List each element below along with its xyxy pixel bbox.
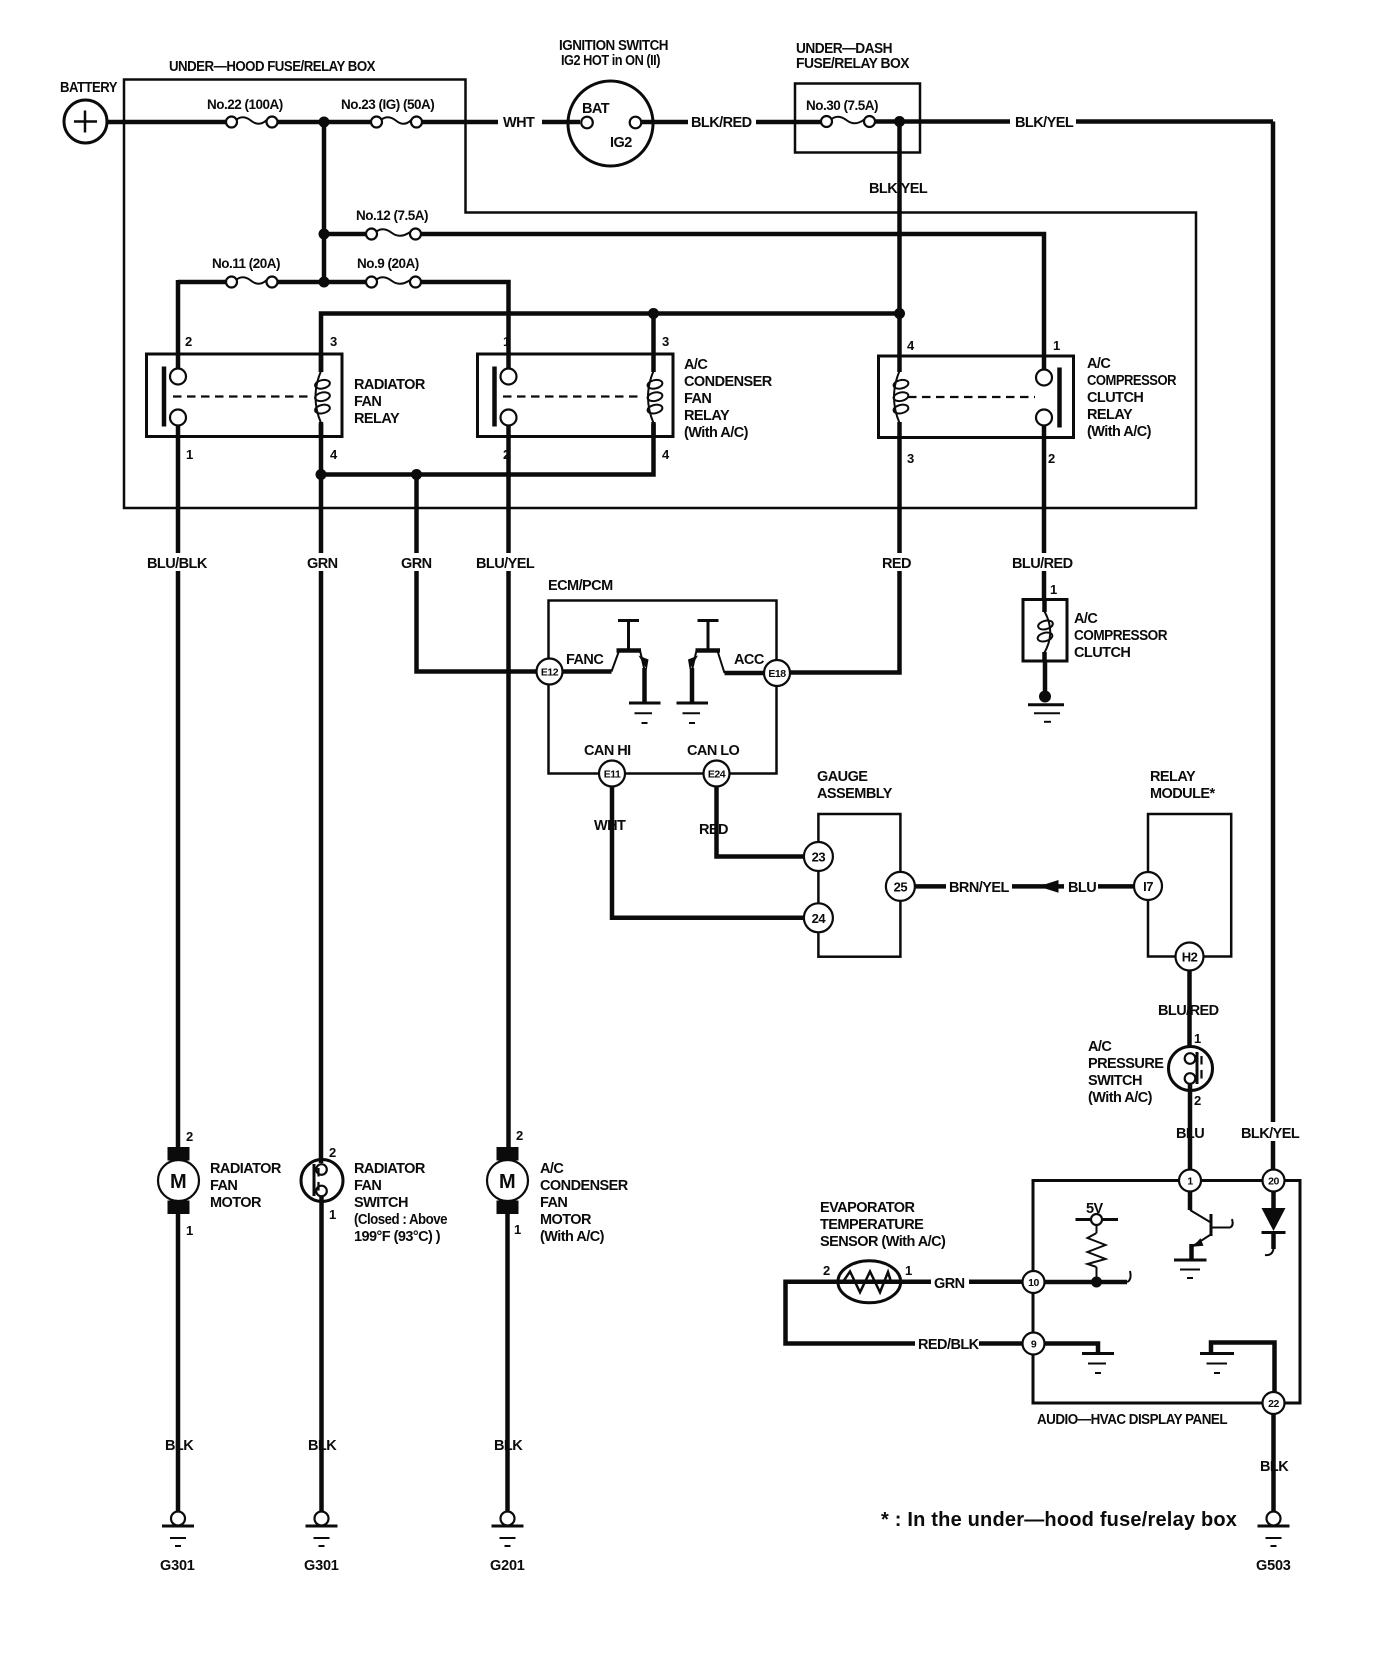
svg-text:1: 1 [1194,1031,1201,1046]
a/c condenser fan motor [487,1128,629,1245]
svg-text:FAN: FAN [210,1178,237,1194]
svg-text:UNDER—HOOD FUSE/RELAY BOX: UNDER—HOOD FUSE/RELAY BOX [169,59,376,75]
radiator fan switch [301,1145,447,1245]
svg-text:G201: G201 [490,1558,525,1574]
connector symbol (male-female join) [1039,880,1059,893]
terminal H2 [1176,943,1204,971]
transistor Q2 (ACC) [688,621,765,704]
terminal E18 ACC [734,652,790,686]
gauge terminal 23 [804,842,833,871]
svg-text:199°F (93°C) ): 199°F (93°C) ) [354,1229,441,1245]
fuse No.23 (IG) (50A) [341,97,434,128]
svg-text:BLU/YEL: BLU/YEL [476,556,535,572]
panel terminal 1 [1179,1170,1201,1192]
wire BLK terminal 22 to ground G503 [1260,1414,1289,1512]
svg-text:WHT: WHT [594,818,626,834]
svg-text:2: 2 [329,1145,336,1160]
audio-hvac display panel box [1033,1181,1300,1429]
svg-text:23: 23 [812,850,826,865]
wire GRN radiator relay pin4 to radiator fan switch [305,475,341,1164]
svg-text:ASSEMBLY: ASSEMBLY [817,786,893,802]
svg-text:G301: G301 [304,1558,339,1574]
svg-text:BLK: BLK [308,1438,337,1454]
svg-text:EVAPORATOR: EVAPORATOR [820,1200,915,1216]
svg-text:FAN: FAN [354,1178,381,1194]
ground G301 (radiator fan motor) [160,1512,195,1575]
footnote [881,1509,1237,1531]
wire GRN coil-low link to ECM FANC [399,475,536,672]
wire BLU pressure switch to panel terminal 1 [1176,1084,1204,1170]
relay module box [1148,769,1231,957]
wire BLK condenser fan motor to ground [494,1214,523,1512]
svg-text:BLK/YEL: BLK/YEL [1241,1126,1300,1142]
svg-text:1: 1 [503,334,510,349]
svg-text:2: 2 [185,334,192,349]
svg-text:GRN: GRN [307,556,338,572]
svg-text:RADIATOR: RADIATOR [354,1161,426,1177]
a/c condenser fan relay [478,334,773,462]
svg-text:CLUTCH: CLUTCH [1074,645,1130,661]
svg-text:ECM/PCM: ECM/PCM [548,578,613,594]
svg-text:E12: E12 [541,667,559,679]
under-dash fuse/relay box [795,41,920,153]
svg-text:24: 24 [812,911,827,926]
svg-text:(With A/C): (With A/C) [540,1229,605,1245]
wire IG2 to under-dash fuse with BLK/RED label [642,112,821,131]
svg-text:BLU: BLU [1176,1126,1204,1142]
terminal E11 CAN HI [584,743,631,787]
svg-text:MOTOR: MOTOR [540,1212,592,1228]
svg-text:GRN: GRN [934,1276,965,1292]
svg-text:PRESSURE: PRESSURE [1088,1056,1164,1072]
5V reference [1076,1201,1119,1225]
terminal E24 CAN LO [687,743,740,787]
svg-text:1: 1 [186,1223,193,1238]
svg-text:E11: E11 [604,769,621,781]
gauge assembly box [817,769,900,957]
wire fuse12 to compressor clutch relay pin1 [421,234,1044,370]
svg-text:No.30 (7.5A): No.30 (7.5A) [806,98,878,113]
svg-text:RELAY: RELAY [684,408,730,424]
svg-text:RED/BLK: RED/BLK [918,1337,980,1353]
svg-text:I7: I7 [1143,879,1153,894]
svg-text:(Closed : Above: (Closed : Above [354,1212,447,1228]
wire BLK/YEL down from junction to relay feed line [869,122,928,373]
svg-text:COMPRESSOR: COMPRESSOR [1074,628,1168,644]
svg-text:WHT: WHT [503,115,535,131]
fuse No.30 (7.5A) [806,98,878,127]
internal ground to terminal 22 [1211,1343,1275,1393]
ground below compressor clutch [1028,661,1064,722]
svg-text:No.12 (7.5A): No.12 (7.5A) [356,208,428,223]
svg-text:CONDENSER: CONDENSER [684,374,773,390]
ground G503 [1256,1512,1291,1575]
terminal E12 FANC [537,652,605,685]
wire RED E24 to gauge 23 [699,787,803,857]
svg-text:3: 3 [330,334,337,349]
svg-text:MOTOR: MOTOR [210,1195,262,1211]
svg-text:RADIATOR: RADIATOR [354,377,426,393]
svg-text:25: 25 [894,879,908,894]
svg-text:4: 4 [662,447,670,462]
svg-text:IGNITION SWITCH: IGNITION SWITCH [559,38,668,54]
svg-text:RELAY: RELAY [354,411,400,427]
svg-text:COMPRESSOR: COMPRESSOR [1087,373,1177,389]
panel terminal 10 [1023,1271,1045,1293]
svg-text:A/C: A/C [1074,611,1098,627]
svg-text:FUSE/RELAY BOX: FUSE/RELAY BOX [796,56,910,72]
svg-text:BLK/YEL: BLK/YEL [1015,115,1074,131]
wire RED compressor relay pin3 to ECM ACC [790,438,916,673]
wire terminal 10 to internal node [1045,1271,1131,1288]
wire battery to fuse No.22 [106,120,227,125]
svg-text:BLK/RED: BLK/RED [691,115,752,131]
svg-text:SWITCH: SWITCH [354,1195,408,1211]
svg-text:A/C: A/C [1088,1039,1112,1055]
radiator fan relay [147,334,426,462]
wire BLK radiator fan switch to ground [308,1196,337,1512]
svg-text:CLUTCH: CLUTCH [1087,390,1143,406]
svg-text:BLK: BLK [1260,1459,1289,1475]
wire fuse9 to condenser relay pin1 [421,282,509,369]
battery [60,80,118,143]
svg-text:BAT: BAT [582,101,610,117]
wire fuse30 to right edge with BLK/YEL label and junction [875,111,1273,131]
wire fuse23 to ignition BAT with WHT label [422,112,580,131]
relay feed line y=313 [321,308,900,372]
ground under Q1 [629,703,661,723]
svg-text:* : In the under—hood fuse/rel: * : In the under—hood fuse/relay box [881,1509,1237,1531]
transistor Q3 (panel input) [1190,1192,1233,1260]
svg-text:FAN: FAN [540,1195,567,1211]
fuse No.12 (7.5A) [324,208,428,240]
diode D1 under terminal 20 [1262,1192,1286,1256]
svg-text:SENSOR (With A/C): SENSOR (With A/C) [820,1234,946,1250]
ground under Q3 [1174,1260,1207,1278]
svg-text:A/C: A/C [684,357,708,373]
fuse No.22 (100A) [207,97,283,128]
svg-text:MODULE*: MODULE* [1150,786,1216,802]
svg-text:No.11 (20A): No.11 (20A) [212,256,280,271]
svg-text:A/C: A/C [540,1161,564,1177]
svg-text:1: 1 [1050,582,1057,597]
svg-text:9: 9 [1031,1339,1037,1351]
ground under Q2 [677,703,709,723]
svg-text:1: 1 [514,1222,521,1237]
svg-text:RELAY: RELAY [1150,769,1196,785]
gauge terminal 24 [804,903,833,932]
svg-text:TEMPERATURE: TEMPERATURE [820,1217,924,1233]
svg-text:FAN: FAN [354,394,381,410]
svg-text:M: M [170,1171,187,1193]
svg-text:1: 1 [186,447,193,462]
svg-text:22: 22 [1268,1398,1279,1410]
svg-text:SWITCH: SWITCH [1088,1073,1142,1089]
wire fuse11 to trunk [278,280,325,285]
resistor R (pull-up) [1088,1225,1106,1282]
fuse No.11 (20A) [178,256,280,288]
svg-text:3: 3 [662,334,669,349]
svg-text:BLU/BLK: BLU/BLK [147,556,208,572]
svg-text:1: 1 [905,1263,912,1278]
svg-text:GAUGE: GAUGE [817,769,868,785]
svg-text:2: 2 [823,1263,830,1278]
coil-low link line y=474.5 [316,424,654,480]
svg-text:CONDENSER: CONDENSER [540,1178,629,1194]
svg-text:1: 1 [1053,338,1060,353]
wire fuse22 to fuse23 with trunk junction [278,117,372,128]
terminal I7 [1134,872,1162,900]
fuse No.9 (20A) [324,256,421,288]
svg-text:4: 4 [907,338,915,353]
svg-text:AUDIO—HVAC DISPLAY PANEL: AUDIO—HVAC DISPLAY PANEL [1037,1412,1228,1428]
panel terminal 22 [1263,1392,1285,1414]
gauge terminal 25 [886,872,915,901]
svg-text:E18: E18 [768,668,786,680]
ground G201 [490,1512,525,1575]
svg-text:1: 1 [329,1207,336,1222]
svg-text:(With A/C): (With A/C) [684,425,749,441]
wire BLU/RED compressor relay pin2 to compressor clutch [1010,426,1074,600]
svg-text:H2: H2 [1182,950,1198,965]
svg-text:IG2 HOT in ON (II): IG2 HOT in ON (II) [561,53,661,69]
svg-text:BLK: BLK [494,1438,523,1454]
svg-text:BATTERY: BATTERY [60,80,118,96]
wire terminal 9 to ground [1045,1344,1099,1353]
wire WHT E11 to gauge 24 [594,787,803,918]
svg-text:FANC: FANC [566,652,604,668]
svg-text:2: 2 [1194,1093,1201,1108]
svg-text:No.23 (IG) (50A): No.23 (IG) (50A) [341,97,434,112]
svg-text:M: M [499,1171,516,1193]
wire fuse11 down to radiator relay pin2 [176,280,181,369]
svg-text:10: 10 [1028,1277,1039,1289]
svg-text:(With A/C): (With A/C) [1088,1090,1153,1106]
svg-text:BLK: BLK [165,1438,194,1454]
ignition switch [559,38,668,166]
svg-text:BLK/YEL: BLK/YEL [869,181,928,197]
wire GRN sensor pin1 to terminal 10 [838,1272,1023,1292]
radiator fan motor [158,1129,282,1238]
svg-text:2: 2 [1048,451,1055,466]
svg-text:2: 2 [186,1129,193,1144]
under-hood fuse/relay box outline [124,59,1196,508]
svg-text:G301: G301 [160,1558,195,1574]
wire H2 to a/c pressure switch BLU/RED [1158,971,1219,1049]
ECM/PCM box [548,578,777,774]
ground symbol near terminal 22 [1200,1354,1234,1374]
svg-text:CAN LO: CAN LO [687,743,740,759]
svg-text:BLU: BLU [1068,880,1096,896]
svg-text:IG2: IG2 [610,135,632,151]
svg-text:BLU/RED: BLU/RED [1012,556,1073,572]
svg-text:UNDER—DASH: UNDER—DASH [796,41,892,57]
a/c compressor clutch [1023,600,1168,662]
svg-text:RED: RED [882,556,911,572]
svg-text:A/C: A/C [1087,356,1111,372]
wire BLK/YEL right side down to panel terminal 20 [1238,122,1304,1171]
svg-text:G503: G503 [1256,1558,1291,1574]
trunk wire from main bus down to fuse rows [319,122,330,288]
svg-text:RADIATOR: RADIATOR [210,1161,282,1177]
wire 25 to relay module I7 with BRN/YEL, connector, BLU [915,877,1134,896]
svg-text:3: 3 [907,451,914,466]
svg-text:FAN: FAN [684,391,711,407]
ground at terminal 9 [1082,1354,1114,1374]
panel terminal 20 [1263,1170,1285,1192]
svg-text:ACC: ACC [734,652,765,668]
wire RED/BLK sensor pin2 to terminal 9 [786,1282,1023,1353]
svg-text:No.9 (20A): No.9 (20A) [357,256,419,271]
a/c pressure switch [1088,1039,1213,1108]
svg-text:CAN HI: CAN HI [584,743,631,759]
svg-text:1: 1 [1187,1176,1193,1188]
wire BLU/BLK radiator relay pin1 to radiator fan motor [145,426,208,1148]
svg-text:(With A/C): (With A/C) [1087,424,1152,440]
svg-text:BLU/RED: BLU/RED [1158,1003,1219,1019]
a/c compressor clutch relay [879,338,1177,466]
evaporator temperature sensor [820,1200,946,1303]
svg-text:2: 2 [516,1128,523,1143]
svg-text:RED: RED [699,822,728,838]
ground G301 (radiator fan switch) [304,1512,339,1575]
wire BLU/YEL condenser relay pin2 to condenser fan motor [474,426,536,1148]
svg-text:4: 4 [330,447,338,462]
transistor Q1 (FANC driver) [562,621,649,704]
wire BLK radiator fan motor to ground [165,1214,194,1512]
svg-text:20: 20 [1268,1176,1279,1188]
svg-text:E24: E24 [708,769,726,781]
svg-text:GRN: GRN [401,556,432,572]
panel terminal 9 [1023,1333,1045,1355]
svg-text:BRN/YEL: BRN/YEL [949,880,1009,896]
svg-text:No.22 (100A): No.22 (100A) [207,97,283,112]
svg-text:RELAY: RELAY [1087,407,1133,423]
